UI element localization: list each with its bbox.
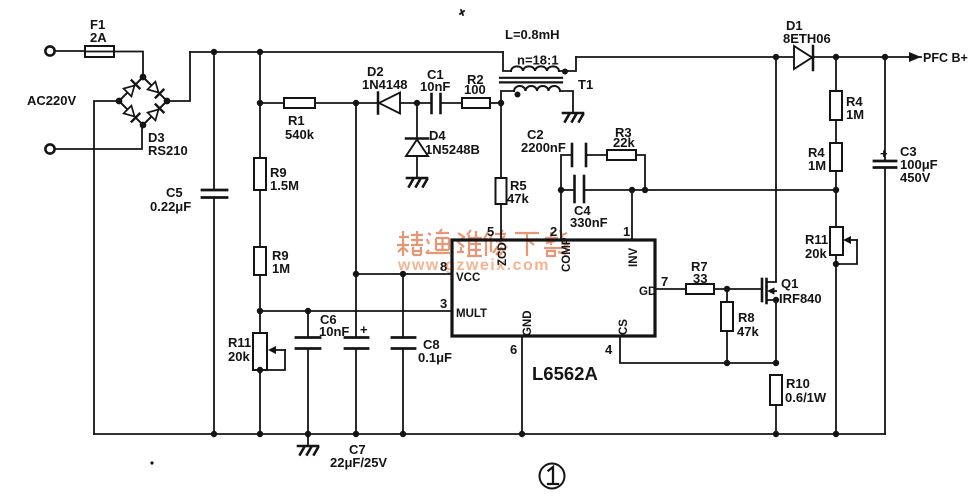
wire [441, 102, 462, 104]
svg-text:0.6/1W: 0.6/1W [785, 390, 827, 405]
node C8 bottom [400, 431, 406, 437]
wire CS pin4 [620, 336, 776, 363]
resistor R10 0.6/1W [770, 375, 827, 434]
zener D4 1N5248B [406, 103, 480, 177]
node gate/R8 [724, 286, 730, 292]
resistor R4 1M upper [830, 57, 864, 122]
svg-text:47k: 47k [507, 191, 529, 206]
wire [835, 255, 837, 434]
svg-text:2A: 2A [90, 30, 107, 45]
svg-text:COMP: COMP [561, 237, 573, 272]
resistor R1 540k [260, 98, 315, 142]
wire bottom ground rail [94, 433, 885, 435]
ground D4 [407, 178, 427, 187]
node VCC vert [353, 271, 359, 277]
node C5 bottom [211, 431, 217, 437]
wire VCC vertical [355, 103, 357, 337]
resistor R9 1M [254, 247, 290, 276]
svg-text:C5: C5 [166, 185, 183, 200]
svg-text:R11: R11 [805, 232, 828, 247]
node MULT left [257, 308, 263, 314]
transformer T1 core [500, 77, 593, 92]
capacitor C3 100uF 450V [874, 57, 938, 434]
wire [315, 102, 377, 104]
wire [259, 370, 261, 434]
svg-text:+: + [360, 322, 368, 337]
diode D1 8ETH06 [783, 18, 831, 70]
svg-text:20k: 20k [228, 349, 250, 364]
svg-text:2200nF: 2200nF [521, 140, 566, 155]
node COMP [558, 187, 564, 193]
wire top-right rail [576, 56, 909, 58]
figure number 1 [540, 464, 565, 489]
ground T1 [563, 113, 583, 122]
terminal AC live [45, 46, 54, 55]
wire INV pin1 [631, 190, 633, 240]
node R8 bottom [724, 360, 730, 366]
svg-text:3: 3 [440, 296, 447, 311]
svg-text:PFC B+: PFC B+ [923, 51, 968, 65]
svg-text:4: 4 [605, 342, 613, 357]
svg-text:INV: INV [628, 248, 640, 268]
svg-text:+: + [880, 146, 888, 161]
wire [259, 52, 261, 103]
svg-text:T1: T1 [578, 77, 593, 92]
node C5 top [211, 49, 217, 55]
svg-text:R8: R8 [738, 310, 755, 325]
terminal AC neutral [45, 144, 54, 153]
svg-text:1N4148: 1N4148 [362, 77, 408, 92]
capacitor C1 10nF [420, 67, 450, 113]
svg-text:1M: 1M [846, 107, 864, 122]
wire VCC pin8 [356, 273, 452, 275]
capacitor C4 330nF [561, 176, 836, 230]
svg-text:540k: 540k [285, 127, 315, 142]
node R11b rail [833, 431, 839, 437]
node VCC feed [353, 100, 359, 106]
capacitor C8 0.1uF [392, 274, 452, 434]
resistor R7 33 [686, 259, 714, 294]
wire [259, 275, 261, 311]
svg-text:100: 100 [464, 82, 486, 97]
resistor R8 47k [721, 289, 759, 363]
svg-text:1: 1 [623, 224, 630, 239]
node D4 top [414, 100, 420, 106]
svg-text:330nF: 330nF [570, 215, 608, 230]
speck top [460, 10, 464, 15]
node R11 bottom [833, 261, 839, 267]
svg-text:GD: GD [639, 286, 656, 298]
wire GD pin7 [655, 288, 686, 290]
capacitor C2 2200nF [521, 127, 607, 190]
svg-text:1M: 1M [272, 261, 290, 276]
wire top-left rail [190, 51, 503, 53]
op-amp U1 L6562A IC body [452, 237, 656, 384]
wire MULT pin3 [260, 310, 452, 312]
svg-text:CS: CS [618, 319, 630, 335]
svg-text:MULT: MULT [456, 308, 487, 320]
svg-text:AC220V: AC220V [27, 93, 76, 108]
wire ZCD pin5 [500, 204, 502, 240]
svg-text:10nF: 10nF [420, 79, 450, 94]
svg-text:47k: 47k [737, 324, 759, 339]
wire [259, 190, 261, 247]
svg-text:2: 2 [550, 224, 557, 239]
wire bridge plus up to top rail [167, 52, 190, 101]
wire R7 to gate [714, 288, 762, 290]
svg-text:1M: 1M [808, 158, 826, 173]
node aux winding [498, 100, 504, 106]
svg-text:n=18:1: n=18:1 [517, 53, 559, 68]
svg-text:RS210: RS210 [148, 143, 188, 158]
svg-text:R10: R10 [786, 376, 810, 391]
svg-text:1.5M: 1.5M [270, 178, 299, 193]
wire GND pin6 [521, 336, 523, 434]
node R4 top [833, 54, 839, 60]
svg-text:L=0.8mH: L=0.8mH [505, 27, 560, 42]
wire [835, 171, 837, 190]
bridge rectifier D3 RS210 [116, 74, 188, 158]
wire fuse to bridge top [114, 52, 143, 78]
svg-text:8ETH06: 8ETH06 [783, 31, 831, 46]
resistor R9 1.5M [254, 103, 299, 193]
wire [55, 50, 85, 52]
PFC B+ output arrow [909, 51, 968, 65]
resistor R3 22k [607, 125, 645, 190]
node C8 top [400, 271, 406, 277]
svg-text:1N5248B: 1N5248B [425, 142, 480, 157]
svg-text:0.1μF: 0.1μF [418, 350, 452, 365]
svg-text:R1: R1 [288, 113, 305, 128]
svg-text:GND: GND [522, 310, 534, 336]
capacitor C7 22uF/25V [330, 322, 387, 470]
resistor R5 47k [496, 103, 530, 206]
wire [490, 102, 501, 104]
node R11 bottom [257, 367, 263, 373]
transformer T1 primary n=18:1 L=0.8mH [503, 27, 576, 75]
wire [259, 311, 261, 333]
node Q1 source bottom [773, 360, 779, 366]
capacitor C5 0.22uF [150, 185, 227, 214]
ground rail symbol [298, 434, 318, 455]
wire neutral to bridge bottom [55, 125, 142, 149]
node INV [629, 187, 635, 193]
node R3 right [642, 187, 648, 193]
svg-text:D4: D4 [429, 128, 446, 143]
svg-text:33: 33 [693, 271, 707, 286]
node Q1 drain top [773, 54, 779, 60]
node C6 top [305, 308, 311, 314]
wire [835, 120, 837, 143]
transistor Q1 IRF840 [762, 57, 822, 363]
potentiometer R11 20k left [228, 333, 285, 370]
diode D2 1N4148 [362, 64, 408, 114]
node divider [833, 187, 839, 193]
wire [213, 52, 215, 189]
potentiometer R11 20k right [805, 227, 857, 264]
svg-text:L6562A: L6562A [532, 363, 598, 384]
wire COMP pin2 [560, 190, 562, 240]
node R10 bottom [773, 431, 779, 437]
node R1 left [257, 100, 263, 106]
svg-text:Q1: Q1 [781, 276, 798, 291]
svg-text:22k: 22k [613, 135, 635, 150]
svg-text:IRF840: IRF840 [779, 291, 822, 306]
node R11 rail [257, 431, 263, 437]
svg-text:8: 8 [440, 259, 447, 274]
svg-text:6: 6 [510, 342, 517, 357]
node C6 bottom [305, 431, 311, 437]
fuse F1 2A [85, 17, 114, 57]
node GND pin6 rail [519, 431, 525, 437]
svg-text:22μF/25V: 22μF/25V [330, 455, 387, 470]
wire [400, 102, 431, 104]
wire bridge minus to left vertical [94, 101, 119, 434]
transformer T1 secondary [501, 86, 573, 112]
svg-text:R11: R11 [228, 335, 251, 350]
node C3 top [882, 54, 888, 60]
svg-text:5: 5 [487, 224, 494, 239]
speck [150, 461, 153, 464]
svg-text:0.22μF: 0.22μF [150, 199, 191, 214]
capacitor C6 10nF [296, 311, 349, 434]
node R9 feed [257, 49, 263, 55]
resistor R2 100 [462, 72, 490, 108]
svg-text:VCC: VCC [456, 272, 480, 284]
svg-text:ZCD: ZCD [497, 242, 509, 266]
svg-text:7: 7 [661, 274, 668, 289]
wire [213, 199, 215, 435]
svg-text:450V: 450V [900, 170, 931, 185]
svg-text:20k: 20k [805, 246, 827, 261]
node C7 bottom [353, 431, 359, 437]
resistor R4 1M lower [808, 143, 842, 173]
wire [835, 190, 837, 227]
